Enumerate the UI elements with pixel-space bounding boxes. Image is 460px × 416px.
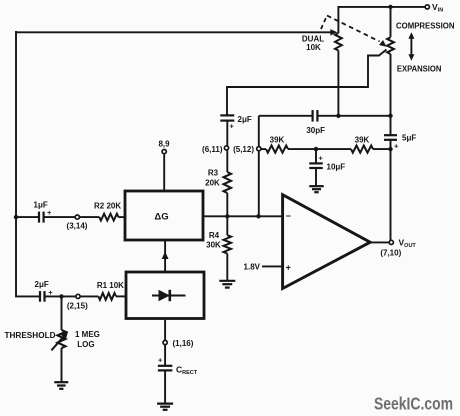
svg-text:+: + [48,288,53,297]
svg-text:(3,14): (3,14) [67,222,88,231]
svg-text:COMPRESSION: COMPRESSION [396,22,455,31]
svg-text:+: + [230,122,235,131]
svg-text:(5,12): (5,12) [233,145,254,154]
svg-text:1.8V: 1.8V [244,263,261,272]
svg-text:THRESHOLD: THRESHOLD [5,331,56,340]
svg-text:LOG: LOG [77,340,94,349]
svg-text:R4: R4 [209,231,220,240]
svg-text:1μF: 1μF [34,201,48,210]
svg-text:8,9: 8,9 [158,140,170,149]
svg-text:30pF: 30pF [306,126,325,135]
svg-text:+: + [286,263,291,273]
svg-text:R2 20K: R2 20K [94,202,121,211]
svg-text:−: − [286,211,291,221]
svg-text:+: + [394,142,399,151]
svg-text:5μF: 5μF [402,134,416,143]
svg-text:20K: 20K [205,179,220,188]
svg-text:2μF: 2μF [35,280,49,289]
svg-text:EXPANSION: EXPANSION [397,65,442,74]
svg-text:1 MEG: 1 MEG [75,330,100,339]
svg-text:+: + [47,208,52,217]
svg-text:(2,15): (2,15) [67,302,88,311]
svg-text:10μF: 10μF [327,163,346,172]
svg-text:(6,11): (6,11) [202,145,223,154]
svg-text:ΔG: ΔG [154,212,168,223]
svg-text:39K: 39K [355,136,370,145]
svg-text:10K: 10K [306,43,321,52]
svg-text:(1,16): (1,16) [173,339,194,348]
svg-text:+: + [158,356,163,365]
svg-text:R1 10K: R1 10K [97,281,124,290]
svg-text:R3: R3 [208,169,219,178]
svg-text:30K: 30K [206,241,221,250]
svg-text:2μF: 2μF [238,115,252,124]
svg-text:DUAL: DUAL [302,34,324,43]
svg-text:39K: 39K [270,136,285,145]
svg-text:+: + [319,154,324,163]
svg-text:(7,10): (7,10) [380,249,401,258]
svg-text:SeekIC.com: SeekIC.com [374,394,453,414]
